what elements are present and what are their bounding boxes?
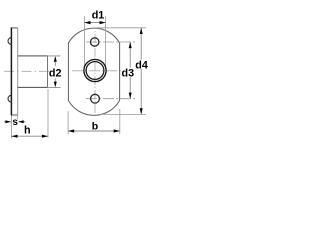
plate right edge xyxy=(17,28,19,115)
shaft bottom edge + extension xyxy=(18,86,61,88)
boss inner circle (bore) xyxy=(86,62,104,80)
bottom hole xyxy=(91,94,100,103)
plate left edge xyxy=(10,28,12,116)
dimension d4 xyxy=(140,28,142,115)
centerline (shaft axis) xyxy=(4,70,53,72)
plate bottom edge xyxy=(11,114,18,116)
svg-text:d4: d4 xyxy=(135,60,148,72)
boss outer circle xyxy=(84,59,106,81)
dimension d1 xyxy=(84,22,105,24)
svg-text:d2: d2 xyxy=(49,67,62,79)
svg-text:s: s xyxy=(12,117,18,128)
dimension s xyxy=(10,116,12,123)
shaft end edge xyxy=(47,56,49,88)
plate outline (front) xyxy=(68,28,119,115)
horizontal centerline boss xyxy=(72,70,121,72)
hole edge bump top xyxy=(8,38,11,45)
d1 extension lines xyxy=(83,16,85,67)
vertical centerline xyxy=(94,31,96,117)
svg-text:d1: d1 xyxy=(92,9,105,21)
svg-text:h: h xyxy=(24,125,31,137)
dimension h xyxy=(10,116,12,139)
bottom hole centerline / d3 extension xyxy=(86,98,136,100)
hole edge bump bottom xyxy=(8,95,11,102)
top hole xyxy=(91,38,99,46)
dimension d2 xyxy=(54,57,56,66)
shaft top edge + extension xyxy=(18,55,61,57)
plate top edge xyxy=(11,27,18,29)
svg-text:d3: d3 xyxy=(121,67,134,79)
dimension b xyxy=(67,111,69,134)
d4 extension lines xyxy=(97,27,146,29)
svg-text:b: b xyxy=(92,120,98,132)
top hole centerline / d3 extension xyxy=(86,41,136,43)
dimension d3 xyxy=(129,42,131,99)
